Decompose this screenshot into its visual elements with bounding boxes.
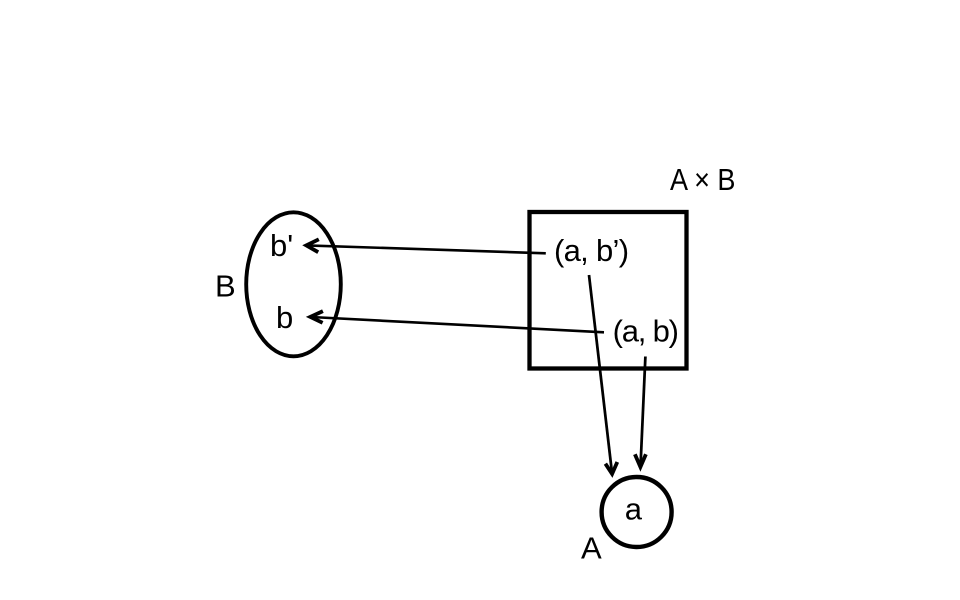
wire arrow (a,b') to b' — [306, 239, 546, 253]
set B ellipse — [246, 212, 341, 356]
svg-text:(a, b’): (a, b’) — [554, 233, 628, 268]
set A circle — [602, 477, 672, 547]
svg-text:b: b — [276, 300, 293, 335]
svg-text:(a, b): (a, b) — [613, 314, 678, 349]
wire arrow (a,b) to b — [310, 311, 604, 332]
svg-text:A × B: A × B — [670, 162, 736, 197]
wire arrow (a,b') down to a — [589, 275, 617, 474]
wire arrow (a,b) down to a — [635, 357, 646, 468]
svg-text:A: A — [581, 531, 602, 566]
svg-text:a: a — [625, 492, 643, 527]
svg-text:B: B — [215, 269, 236, 304]
set A×B square — [530, 212, 687, 369]
svg-text:b': b' — [270, 228, 293, 263]
